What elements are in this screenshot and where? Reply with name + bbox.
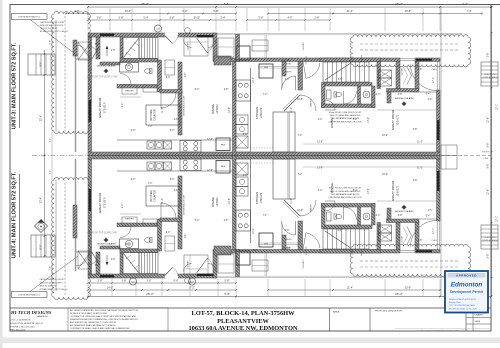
svg-text:35'-4": 35'-4" xyxy=(395,292,403,296)
svg-text:13'-8": 13'-8" xyxy=(317,168,323,170)
svg-text:12'0X17'1: 12'0X17'1 xyxy=(397,185,400,197)
svg-text:PANTRY: PANTRY xyxy=(125,90,134,93)
svg-text:FOYER: FOYER xyxy=(282,61,290,63)
svg-text:HI-TECH DESIGNS: HI-TECH DESIGNS xyxy=(10,310,52,315)
svg-text:EDMONTON, ALBERTA T5A 2J9: EDMONTON, ALBERTA T5A 2J9 xyxy=(11,322,44,325)
svg-text:A/C ROOF TOP SUPPLY AIR: A/C ROOF TOP SUPPLY AIR xyxy=(87,76,118,79)
svg-text:3'-0": 3'-0" xyxy=(147,280,152,283)
svg-text:36 HIGH WALL W/ CAP: 36 HIGH WALL W/ CAP xyxy=(183,194,186,215)
svg-text:KITCHEN: KITCHEN xyxy=(255,107,259,119)
svg-text:(KITCHEN): (KITCHEN) xyxy=(151,190,153,202)
svg-text:DINING: DINING xyxy=(211,197,215,207)
svg-text:FOYER: FOYER xyxy=(282,249,290,251)
svg-text:26'-0": 26'-0" xyxy=(141,2,149,6)
svg-text:7'-4": 7'-4" xyxy=(462,2,468,6)
svg-text:GREAT ROOM: GREAT ROOM xyxy=(98,192,102,213)
svg-text:PROPOSED DESIGN FOR ~: PROPOSED DESIGN FOR ~ xyxy=(375,311,404,313)
svg-text:CLOSET: CLOSET xyxy=(402,235,404,243)
svg-text:9'-0": 9'-0" xyxy=(122,204,124,209)
svg-text:AT MAIN SUBFLOOR TO BE LVL: AT MAIN SUBFLOOR TO BE LVL xyxy=(40,288,68,291)
svg-text:3'-0": 3'-0" xyxy=(285,79,290,81)
svg-text:2'-8": 2'-8" xyxy=(418,240,423,242)
svg-text:12'-8": 12'-8" xyxy=(487,189,490,195)
svg-text:5'-4": 5'-4" xyxy=(144,17,149,20)
svg-text:10'0X8'2: 10'0X8'2 xyxy=(216,104,219,114)
svg-text:8'-0": 8'-0" xyxy=(40,244,43,249)
svg-text:2'-8": 2'-8" xyxy=(111,50,116,52)
svg-text:ALL RIGHTS RESERVED. INCLUDING: ALL RIGHTS RESERVED. INCLUDING THE RIGHT… xyxy=(70,309,139,312)
svg-text:10633 60A AVENUE NW, EDMONTON: 10633 60A AVENUE NW, EDMONTON xyxy=(188,325,297,332)
svg-text:2'-8": 2'-8" xyxy=(224,89,229,91)
svg-text:GREAT ROOM: GREAT ROOM xyxy=(391,109,395,130)
svg-text:7'x4'0: 7'x4'0 xyxy=(431,69,437,71)
svg-text:SMOKE/CO ALARM: SMOKE/CO ALARM xyxy=(97,243,116,246)
svg-text:DINING: DINING xyxy=(211,104,215,114)
svg-text:6'-4": 6'-4" xyxy=(426,94,431,96)
svg-text:16'-2": 16'-2" xyxy=(90,104,92,110)
svg-text:5'-2": 5'-2" xyxy=(95,265,100,267)
svg-text:Rowley Zhou: Rowley Zhou xyxy=(449,302,461,304)
svg-text:9'-0": 9'-0" xyxy=(122,103,124,108)
svg-text:4716 - 134 AVENUE: 4716 - 134 AVENUE xyxy=(11,319,31,322)
svg-text:15'-8": 15'-8" xyxy=(405,9,412,13)
svg-text:17'1X11'9: 17'1X11'9 xyxy=(104,102,107,113)
svg-text:5'-8": 5'-8" xyxy=(487,142,490,147)
svg-text:2'-6": 2'-6" xyxy=(185,73,187,78)
svg-text:CLOSET: CLOSET xyxy=(303,42,305,51)
svg-text:2'-8": 2'-8" xyxy=(224,220,229,222)
svg-text:5'-8": 5'-8" xyxy=(50,40,52,45)
svg-text:17'1X11'9: 17'1X11'9 xyxy=(104,197,107,208)
svg-text:CONTRACTOR / BUILDER SHALL VER: CONTRACTOR / BUILDER SHALL VERIFY ALL SP… xyxy=(70,315,137,318)
svg-text:Edmonton: Edmonton xyxy=(451,281,483,288)
svg-text:Development Permit: Development Permit xyxy=(450,290,484,294)
svg-text:14'-0": 14'-0" xyxy=(125,9,132,13)
svg-text:2'-0": 2'-0" xyxy=(243,175,248,177)
svg-text:JACK PL SUPPORT: JACK PL SUPPORT xyxy=(40,285,58,288)
svg-text:13'-2": 13'-2" xyxy=(368,188,370,194)
svg-text:2'-8": 2'-8" xyxy=(398,215,403,217)
svg-text:5'-8": 5'-8" xyxy=(259,17,264,20)
svg-text:11'-2": 11'-2" xyxy=(417,168,423,170)
svg-text:JOISTS WITH MAX 19.2: JOISTS WITH MAX 19.2 xyxy=(18,294,41,297)
svg-text:10'0X10'0: 10'0X10'0 xyxy=(260,192,263,203)
svg-text:12'-6": 12'-6" xyxy=(229,107,231,113)
svg-text:2'-8": 2'-8" xyxy=(111,259,116,261)
svg-text:2'-0": 2'-0" xyxy=(166,77,171,79)
svg-text:11'-0": 11'-0" xyxy=(291,198,293,204)
svg-text:PHONE: (780) 478-5344: PHONE: (780) 478-5344 xyxy=(11,326,36,328)
svg-text:3'-8": 3'-8" xyxy=(487,253,490,258)
svg-text:10'-8": 10'-8" xyxy=(297,99,303,101)
svg-text:UNIT-4: MAIN FLOOR 572 SQ.FT.: UNIT-4: MAIN FLOOR 572 SQ.FT. xyxy=(12,171,18,258)
svg-text:GREAT ROOM: GREAT ROOM xyxy=(391,180,395,201)
svg-text:COUNTER: COUNTER xyxy=(155,190,157,202)
svg-text:11'-2": 11'-2" xyxy=(417,142,423,144)
svg-text:KITCHEN: KITCHEN xyxy=(255,192,259,204)
svg-text:STEPS AT GRADE: STEPS AT GRADE xyxy=(482,239,498,242)
svg-text:6'-4": 6'-4" xyxy=(318,190,323,192)
svg-text:2'-8": 2'-8" xyxy=(98,280,103,283)
svg-text:22'-4": 22'-4" xyxy=(40,115,43,121)
svg-text:2'-4": 2'-4" xyxy=(126,244,131,246)
svg-text:5'-8": 5'-8" xyxy=(224,2,229,6)
svg-text:AREA: AREA xyxy=(333,311,339,314)
svg-text:2'-6": 2'-6" xyxy=(185,234,187,239)
svg-text:APPROVED: APPROVED xyxy=(456,274,477,278)
svg-text:IN WHOLE OR IN PART, IN ANY FO: IN WHOLE OR IN PART, IN ANY FORM. xyxy=(70,312,107,315)
svg-text:2'-4": 2'-4" xyxy=(126,65,131,67)
svg-text:4'-6": 4'-6" xyxy=(428,210,433,212)
svg-text:14'-0": 14'-0" xyxy=(107,287,113,290)
svg-text:5'-8": 5'-8" xyxy=(224,292,229,296)
svg-text:5'-4": 5'-4" xyxy=(195,89,200,91)
svg-text:2'-8": 2'-8" xyxy=(418,69,423,71)
svg-text:3'-0": 3'-0" xyxy=(353,119,358,121)
svg-text:2'-4": 2'-4" xyxy=(376,94,381,96)
svg-text:PANTRY: PANTRY xyxy=(310,204,313,212)
svg-text:PANTRY: PANTRY xyxy=(125,218,134,221)
svg-text:11'-4": 11'-4" xyxy=(347,287,353,290)
svg-text:JOISTS WITH MAX 19.2: JOISTS WITH MAX 19.2 xyxy=(18,16,41,19)
svg-text:6'-2": 6'-2" xyxy=(253,250,258,252)
svg-text:5'-8": 5'-8" xyxy=(119,17,124,20)
svg-text:2'-6": 2'-6" xyxy=(174,119,179,121)
svg-text:6'-4": 6'-4" xyxy=(426,216,431,218)
svg-text:12'0X17'1: 12'0X17'1 xyxy=(397,114,400,126)
svg-text:6'-8": 6'-8" xyxy=(413,129,418,131)
svg-text:11'-6": 11'-6" xyxy=(162,198,164,204)
svg-text:CANTILEVERED FLOOR AT: CANTILEVERED FLOOR AT xyxy=(40,21,65,24)
svg-text:4'-6": 4'-6" xyxy=(428,99,433,101)
svg-text:587-989-8509/587 Jul 23, 20: 587-989-8509/587 Jul 23, 2025 xyxy=(449,308,478,310)
svg-text:5'-10": 5'-10" xyxy=(194,17,200,20)
svg-text:6'-8": 6'-8" xyxy=(413,180,418,182)
svg-text:7'-4": 7'-4" xyxy=(50,138,52,143)
svg-text:6'-8": 6'-8" xyxy=(174,280,179,283)
svg-text:10'0X10'0: 10'0X10'0 xyxy=(260,107,263,118)
svg-text:40mm SOLID CORE WOOD DOOR: 40mm SOLID CORE WOOD DOOR xyxy=(329,112,362,114)
svg-text:CLOSET: CLOSET xyxy=(402,67,404,75)
svg-text:LINE: LINE xyxy=(484,158,489,160)
svg-text:4'-0": 4'-0" xyxy=(288,17,293,20)
svg-text:13'-8": 13'-8" xyxy=(317,142,323,144)
svg-text:JACK PL SUPPORT: JACK PL SUPPORT xyxy=(40,27,58,30)
svg-text:15'-8": 15'-8" xyxy=(405,287,411,290)
svg-text:6'-2": 6'-2" xyxy=(190,287,195,290)
svg-text:WINDOW 600x150 JOISTS: WINDOW 600x150 JOISTS xyxy=(40,25,64,27)
svg-text:5'-8": 5'-8" xyxy=(122,280,127,283)
svg-text:10'-8": 10'-8" xyxy=(297,210,303,212)
svg-text:9'-0": 9'-0" xyxy=(131,130,136,132)
svg-text:DRAWN: DRAWN xyxy=(475,314,484,317)
svg-text:FAX: 466-0524: FAX: 466-0524 xyxy=(11,329,26,332)
svg-text:OPEN WOOD: OPEN WOOD xyxy=(484,74,496,76)
svg-text:12'-6": 12'-6" xyxy=(229,198,231,204)
svg-text:5'-8": 5'-8" xyxy=(225,280,230,283)
svg-text:3'-8": 3'-8" xyxy=(97,17,102,20)
svg-text:13'-2": 13'-2" xyxy=(368,117,370,123)
svg-text:4'-0": 4'-0" xyxy=(74,9,79,13)
svg-text:DEVELOPMENT AUTHORITY: DEVELOPMENT AUTHORITY xyxy=(449,298,477,301)
svg-text:UNIT-3: MAIN FLOOR 572 SQ.FT.: UNIT-3: MAIN FLOOR 572 SQ.FT. xyxy=(12,42,18,129)
svg-text:17'-1": 17'-1" xyxy=(433,228,435,234)
svg-text:5'-0": 5'-0" xyxy=(170,179,175,181)
svg-text:12'-6": 12'-6" xyxy=(207,170,213,172)
svg-text:2'-4": 2'-4" xyxy=(376,215,381,217)
svg-text:8'-0": 8'-0" xyxy=(40,61,43,66)
svg-text:6'-2": 6'-2" xyxy=(182,9,187,13)
svg-text:3'-0": 3'-0" xyxy=(285,230,290,232)
svg-text:7'-0": 7'-0" xyxy=(148,126,153,128)
svg-text:6'-4": 6'-4" xyxy=(318,119,323,121)
svg-text:SMOKE/CO ALARM: SMOKE/CO ALARM xyxy=(395,210,414,213)
svg-text:ANY ERRORS OR OMISSIONS TO THI: ANY ERRORS OR OMISSIONS TO THIS OFFICE. xyxy=(70,321,117,324)
svg-text:PANTRY: PANTRY xyxy=(310,99,313,107)
svg-text:FIN.FLR: FIN.FLR xyxy=(482,152,490,154)
svg-text:SMOKE/CO ALARM: SMOKE/CO ALARM xyxy=(97,65,116,68)
svg-text:CLOSET: CLOSET xyxy=(303,260,305,269)
svg-text:CITY OF EDMONTON DATE: CITY OF EDMONTON DATE xyxy=(449,304,475,307)
svg-text:7'-4": 7'-4" xyxy=(466,9,471,13)
svg-text:26'-0": 26'-0" xyxy=(146,292,154,296)
svg-text:10'-0": 10'-0" xyxy=(253,228,255,234)
svg-text:3'-8": 3'-8" xyxy=(170,17,175,20)
svg-text:WINDOW 600x150 JOISTS: WINDOW 600x150 JOISTS xyxy=(40,282,64,284)
svg-text:17'-1": 17'-1" xyxy=(433,77,435,83)
svg-text:36 HIGH WALL W/ CAP: 36 HIGH WALL W/ CAP xyxy=(183,95,186,116)
svg-text:11'-4": 11'-4" xyxy=(347,9,353,13)
svg-text:7'-4": 7'-4" xyxy=(50,170,52,175)
svg-text:7'-2": 7'-2" xyxy=(263,215,268,217)
svg-text:5'-2": 5'-2" xyxy=(95,44,100,46)
svg-text:AT MAIN SUBFLOOR TO BE LVL: AT MAIN SUBFLOOR TO BE LVL xyxy=(40,30,68,33)
svg-text:5'-8": 5'-8" xyxy=(50,266,52,271)
svg-text:(KITCHEN): (KITCHEN) xyxy=(151,109,153,121)
svg-text:6'-2": 6'-2" xyxy=(253,59,258,61)
svg-text:2'-0": 2'-0" xyxy=(243,134,248,136)
svg-text:5'-8": 5'-8" xyxy=(487,163,490,168)
svg-text:OPEN WOOD: OPEN WOOD xyxy=(484,237,496,239)
svg-text:15'-0": 15'-0" xyxy=(382,135,388,137)
svg-text:REF: REF xyxy=(221,145,226,147)
svg-text:15'-0": 15'-0" xyxy=(382,174,388,176)
svg-text:DIMENSIONS BEFORE COMMENCING C: DIMENSIONS BEFORE COMMENCING CONSTRUCTIO… xyxy=(70,318,139,321)
svg-text:TWO SEPARATE DEAD BOLTS: TWO SEPARATE DEAD BOLTS xyxy=(331,193,360,196)
svg-text:2'-6": 2'-6" xyxy=(174,190,179,192)
svg-text:5'-8": 5'-8" xyxy=(338,230,343,232)
svg-text:CLOSET: CLOSET xyxy=(188,42,190,51)
svg-text:A/C ROOF TOP SUPPLY AIR: A/C ROOF TOP SUPPLY AIR xyxy=(87,232,118,235)
svg-text:2'-0": 2'-0" xyxy=(166,232,171,234)
svg-text:3'-4": 3'-4" xyxy=(221,17,226,20)
svg-text:7'-0": 7'-0" xyxy=(148,183,153,185)
svg-text:CANTILEVERED FLOOR AT: CANTILEVERED FLOOR AT xyxy=(40,278,65,281)
svg-text:3'-8": 3'-8" xyxy=(487,52,490,57)
svg-text:5'-0": 5'-0" xyxy=(170,130,175,132)
svg-text:16'-2": 16'-2" xyxy=(90,201,92,207)
svg-text:DATE: DATE xyxy=(475,320,481,323)
svg-text:17'-1": 17'-1" xyxy=(496,216,499,222)
svg-text:SMOKE/CO ALARM: SMOKE/CO ALARM xyxy=(395,97,414,100)
svg-text:7'x4'0: 7'x4'0 xyxy=(431,240,437,242)
svg-text:7'-2": 7'-2" xyxy=(298,174,303,176)
svg-text:2'-8": 2'-8" xyxy=(398,94,403,96)
svg-text:11'-6": 11'-6" xyxy=(162,107,164,113)
svg-text:CONTRACTOR SHALL CHECK AND VER: CONTRACTOR SHALL CHECK AND VERIFY ALL DI… xyxy=(70,327,130,330)
svg-text:7'-2": 7'-2" xyxy=(298,135,303,137)
svg-text:10'0X8'2: 10'0X8'2 xyxy=(216,197,219,207)
svg-text:5'-8": 5'-8" xyxy=(338,79,343,81)
svg-text:STEPS AT GRADE: STEPS AT GRADE xyxy=(482,76,498,79)
svg-text:10'-0": 10'-0" xyxy=(253,77,255,83)
svg-text:22'-4": 22'-4" xyxy=(40,197,43,203)
svg-text:11'-0": 11'-0" xyxy=(291,107,293,113)
svg-text:SELF CLOSING AND GASKETED: SELF CLOSING AND GASKETED xyxy=(330,114,361,117)
svg-text:12'-8": 12'-8" xyxy=(487,117,490,123)
svg-text:COUNTER: COUNTER xyxy=(155,109,157,121)
svg-text:PLEASANTVIEW: PLEASANTVIEW xyxy=(217,318,269,325)
svg-text:12'-6": 12'-6" xyxy=(207,139,213,141)
svg-text:2'-8": 2'-8" xyxy=(315,17,320,20)
svg-text:ONE PHONE EACH SIDE OF DOOR: ONE PHONE EACH SIDE OF DOOR xyxy=(328,196,362,199)
svg-text:17'-1": 17'-1" xyxy=(496,104,499,110)
svg-text:5'-4": 5'-4" xyxy=(195,220,200,222)
svg-text:CLOSET: CLOSET xyxy=(188,260,190,269)
svg-text:GREAT ROOM: GREAT ROOM xyxy=(98,97,102,118)
svg-text:LOT-57, BLOCK-14, PLAN-3756HW: LOT-57, BLOCK-14, PLAN-3756HW xyxy=(191,310,295,317)
svg-text:9'-0": 9'-0" xyxy=(131,179,136,181)
svg-text:7'-2": 7'-2" xyxy=(263,94,268,96)
svg-text:ALL DRAWINGS SHALL BE READ NOT: ALL DRAWINGS SHALL BE READ NOT SCALED. xyxy=(70,324,116,327)
svg-text:CANADA INC: CANADA INC xyxy=(36,315,49,318)
svg-text:35'-4": 35'-4" xyxy=(395,2,403,6)
svg-text:3'-0": 3'-0" xyxy=(353,190,358,192)
